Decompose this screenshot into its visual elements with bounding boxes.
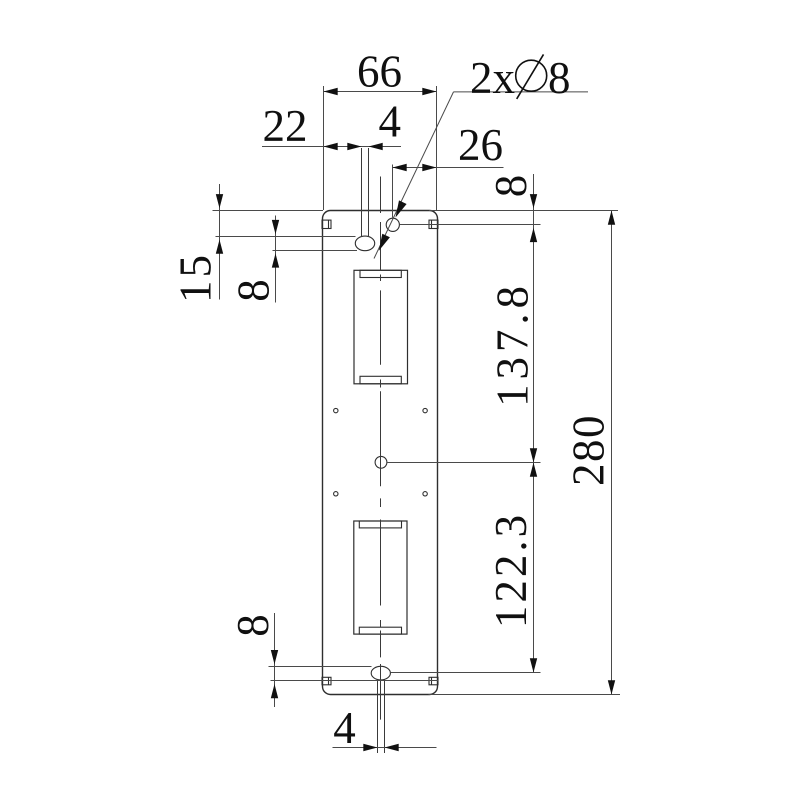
slot upper tab top xyxy=(360,270,401,277)
small hole upper-left xyxy=(334,408,338,412)
arrow 122.3 bottom xyxy=(530,658,537,672)
top edge left extension xyxy=(213,210,324,212)
dim 15 lower extension xyxy=(216,236,356,238)
small hole lower-right xyxy=(423,492,427,496)
arrow 66 left xyxy=(324,88,338,95)
dim 66 left extension xyxy=(323,86,325,210)
slot side line bottom-right xyxy=(384,680,386,754)
small hole upper-right xyxy=(423,408,427,412)
arrow 22 left xyxy=(324,143,338,150)
svg-text:15: 15 xyxy=(171,252,221,303)
leader line 2x⌀8 xyxy=(374,92,454,259)
arrow 4 bottom right outside xyxy=(385,744,399,751)
dim 280 line xyxy=(611,211,613,695)
bottom edge right extension xyxy=(429,694,621,696)
dim 66 right extension xyxy=(436,86,438,210)
arrow 137.8 top xyxy=(530,228,537,242)
svg-text:2x: 2x xyxy=(470,53,515,103)
leader underline xyxy=(454,91,589,93)
arrow 280 bottom xyxy=(608,680,615,694)
arrow 8BL top xyxy=(271,650,278,664)
slot lower tab top xyxy=(359,521,401,528)
dim 26 line xyxy=(393,167,504,169)
plate outline xyxy=(323,211,438,695)
edge notch bottom-left xyxy=(322,677,331,685)
svg-text:8: 8 xyxy=(548,53,571,103)
svg-text:280: 280 xyxy=(564,414,614,486)
arrow 15 bottom xyxy=(216,240,223,254)
diameter symbol xyxy=(516,54,547,99)
leader arrow at hole xyxy=(396,200,407,217)
slot side line top-left (4 wide) xyxy=(361,148,363,237)
dim 8 bottom-left line xyxy=(274,613,276,707)
arrow 22 right xyxy=(347,143,361,150)
edge notch top-left xyxy=(322,220,331,228)
edge notch top-right xyxy=(429,220,438,228)
arrow 4 bottom left outside xyxy=(363,744,377,751)
slot side line bottom-left xyxy=(377,680,379,754)
svg-text:66: 66 xyxy=(357,47,402,97)
svg-text:8: 8 xyxy=(229,279,279,302)
arrow 280 top xyxy=(608,211,615,225)
arrow 8TL bottom xyxy=(272,253,279,267)
arrow 8BL bottom xyxy=(271,684,278,698)
hole ⌀8 top xyxy=(386,218,399,231)
dim 4 bottom line xyxy=(333,747,437,749)
arrow 26 right xyxy=(422,164,436,171)
arrow 4 top outside xyxy=(369,143,383,150)
arrow 8TR top xyxy=(530,194,537,208)
slot side line top-right xyxy=(368,148,370,237)
svg-text:4: 4 xyxy=(379,97,402,147)
hole center extension xyxy=(399,224,540,226)
svg-text:122.3: 122.3 xyxy=(486,512,536,628)
arrow 8TL top xyxy=(272,220,279,234)
svg-text:137.8: 137.8 xyxy=(488,281,538,407)
arrow 122.3 top xyxy=(530,463,537,477)
svg-text:22: 22 xyxy=(263,101,308,151)
arrow 137.8 bottom xyxy=(530,448,537,462)
small hole lower-left xyxy=(334,492,338,496)
svg-text:26: 26 xyxy=(458,120,503,170)
top edge right extension xyxy=(429,210,618,212)
arrow 15 top xyxy=(216,194,223,208)
dim 66 line xyxy=(324,91,437,93)
svg-text:8: 8 xyxy=(486,175,536,198)
dim 8 bottom-left upper extension xyxy=(269,666,372,668)
dim 26 extension xyxy=(392,165,394,218)
slot upper tab bottom xyxy=(360,376,401,384)
svg-text:8: 8 xyxy=(228,614,278,637)
svg-text:4: 4 xyxy=(333,703,356,753)
arrow 66 right xyxy=(422,88,436,95)
bottom obround extension xyxy=(390,672,540,674)
slot cutout upper rectangle xyxy=(354,270,408,384)
slot cutout lower rectangle xyxy=(354,521,407,634)
leader arrow at slot xyxy=(379,234,390,251)
dim 22 and 4 line xyxy=(262,146,401,148)
dim 8/137.8/122.3 line xyxy=(533,174,535,673)
dim 15 line xyxy=(219,184,221,300)
keyhole slot end top (⌀8) xyxy=(355,236,374,251)
slot lower tab bottom xyxy=(359,627,401,634)
dim 8 top-left line xyxy=(275,216,277,303)
dim 8 bottom-left lower extension xyxy=(271,680,439,682)
center hole extension xyxy=(387,462,541,464)
vertical center line xyxy=(380,177,382,720)
keyhole slot end bottom (⌀8) xyxy=(371,666,390,680)
edge notch bottom-right xyxy=(429,677,438,685)
dim 8 top-left extension xyxy=(273,250,358,252)
arrow 26 left xyxy=(393,164,407,171)
center hole xyxy=(375,456,387,468)
